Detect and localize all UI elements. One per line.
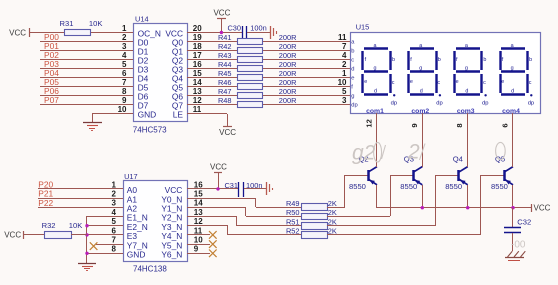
svg-text:com2: com2 [411,108,429,115]
svg-text:11: 11 [194,226,203,235]
svg-text:8550: 8550 [400,182,417,191]
svg-text:e: e [456,79,459,85]
svg-text:R43: R43 [218,51,232,60]
svg-text:2K: 2K [328,208,337,217]
svg-text:a: a [419,43,422,49]
svg-text:R52: R52 [286,227,300,236]
svg-text:g: g [351,94,354,100]
svg-text:3: 3 [112,199,117,208]
svg-text:8: 8 [455,123,464,127]
svg-text:R48: R48 [218,96,232,105]
svg-text:g: g [465,66,468,72]
svg-text:74HC573: 74HC573 [133,126,167,135]
svg-text:dp: dp [351,103,357,109]
svg-text:VCC: VCC [9,29,26,38]
svg-text:R42: R42 [218,42,232,51]
svg-text:13: 13 [193,87,202,96]
svg-text:10: 10 [194,236,203,245]
svg-text:e: e [364,79,367,85]
svg-text:C30: C30 [227,24,241,33]
svg-text:4: 4 [122,51,127,60]
svg-text:16: 16 [193,60,202,69]
svg-text:2: 2 [342,60,347,69]
svg-text:VCC: VCC [534,204,551,213]
svg-text:7: 7 [342,42,347,51]
svg-text:6: 6 [112,226,117,235]
svg-text:74HC138: 74HC138 [133,264,167,273]
svg-text:2: 2 [122,33,127,42]
svg-text:4: 4 [112,208,117,217]
svg-text:8: 8 [122,87,127,96]
svg-text:dp: dp [436,100,442,106]
svg-text:12: 12 [365,119,374,127]
svg-text:a: a [465,43,468,49]
svg-text:c: c [437,80,440,86]
svg-text:200R: 200R [279,33,297,42]
svg-text:dp: dp [391,100,397,106]
svg-text:17: 17 [193,51,202,60]
svg-text:3: 3 [122,42,127,51]
svg-text:9: 9 [122,96,127,105]
svg-text:20: 20 [193,24,202,33]
svg-text:d: d [511,89,514,95]
svg-text:com4: com4 [502,108,520,115]
svg-text:g2: g2 [352,142,376,165]
svg-text:R41: R41 [218,33,232,42]
svg-text:c: c [529,80,532,86]
svg-text:dp: dp [482,100,488,106]
svg-text:R46: R46 [218,78,232,87]
svg-text:VCC: VCC [4,231,21,240]
svg-text:1: 1 [342,69,347,78]
svg-text:d: d [351,67,354,73]
svg-text:8: 8 [112,245,117,254]
svg-text:18: 18 [193,42,202,51]
svg-text:com1: com1 [366,108,384,115]
svg-text:16: 16 [194,180,203,189]
svg-text:C31: C31 [224,181,238,190]
svg-text:12: 12 [193,96,202,105]
svg-text:7: 7 [112,236,117,245]
svg-text:3: 3 [342,96,347,105]
svg-text:b: b [351,49,354,55]
svg-text:-00: -00 [511,240,526,251]
svg-text:R31: R31 [60,19,74,28]
svg-text:b: b [529,57,532,63]
svg-text:4: 4 [342,51,347,60]
svg-text:e: e [501,79,504,85]
svg-text:g: g [419,66,422,72]
svg-text:5: 5 [342,87,347,96]
svg-text:13: 13 [194,208,203,217]
svg-text:7: 7 [122,78,127,87]
svg-text:2: 2 [407,141,420,164]
svg-text:1: 1 [112,180,117,189]
svg-text:GND: GND [138,110,157,120]
svg-text:11: 11 [338,33,347,42]
svg-text:e: e [351,76,354,82]
svg-text:200R: 200R [279,42,297,51]
svg-text:GND: GND [127,250,146,260]
svg-text:200R: 200R [279,51,297,60]
svg-text:b: b [483,57,486,63]
svg-text:6: 6 [122,69,127,78]
svg-text:9: 9 [194,245,199,254]
svg-text:2K: 2K [328,227,337,236]
svg-text:10: 10 [338,78,347,87]
svg-text:VCC: VCC [219,128,236,137]
svg-text:com3: com3 [457,108,475,115]
svg-text:2K: 2K [328,217,337,226]
svg-text:d: d [420,89,423,95]
svg-text:6: 6 [501,123,510,127]
svg-text:1: 1 [122,24,127,33]
svg-text:R51: R51 [286,217,300,226]
svg-text:5: 5 [122,60,127,69]
svg-text:5: 5 [112,217,117,226]
svg-text:200R: 200R [279,60,297,69]
svg-text:c: c [351,58,354,64]
svg-text:14: 14 [193,78,202,87]
svg-text:12: 12 [194,217,203,226]
svg-text:a: a [374,43,377,49]
svg-text:8550: 8550 [349,182,366,191]
svg-text:g: g [511,66,514,72]
svg-text:U17: U17 [124,172,138,181]
svg-text:LE: LE [173,110,184,120]
svg-text:c: c [392,80,395,86]
svg-text:VCC: VCC [213,9,230,18]
svg-text:200R: 200R [279,78,297,87]
svg-text:e: e [410,79,413,85]
svg-text:R49: R49 [286,199,300,208]
svg-text:100n: 100n [246,181,262,190]
svg-text:dp: dp [528,100,534,106]
svg-text:d: d [374,89,377,95]
svg-text:200R: 200R [279,69,297,78]
svg-text:10: 10 [118,105,127,114]
svg-text:b: b [438,57,441,63]
svg-text:P07: P07 [44,95,59,105]
svg-text:U14: U14 [135,15,149,24]
svg-text:15: 15 [194,190,203,199]
svg-text:C32: C32 [517,218,531,227]
svg-text:R32: R32 [42,221,56,230]
svg-text:R44: R44 [218,60,232,69]
svg-text:R45: R45 [218,69,232,78]
svg-text:19: 19 [193,33,202,42]
svg-text:200R: 200R [279,96,297,105]
svg-text:a: a [511,43,514,49]
svg-text:R47: R47 [218,87,232,96]
svg-text:VCC: VCC [210,162,227,171]
svg-text:2: 2 [112,190,117,199]
svg-text:Q4: Q4 [453,155,463,164]
svg-text:R50: R50 [286,208,300,217]
svg-text:15: 15 [193,69,202,78]
svg-text:8550: 8550 [445,182,462,191]
svg-text:10K: 10K [89,19,103,28]
svg-text:11: 11 [193,105,202,114]
svg-text:U15: U15 [356,22,370,31]
svg-text:9: 9 [410,123,419,127]
svg-text:c: c [483,80,486,86]
svg-text:d: d [465,89,468,95]
svg-text:2K: 2K [328,199,337,208]
svg-text:14: 14 [194,199,203,208]
svg-text:8550: 8550 [491,182,508,191]
svg-text:Y6_N: Y6_N [161,250,182,260]
svg-text:10K: 10K [69,221,83,230]
svg-text:P22: P22 [38,198,53,208]
svg-text:100n: 100n [250,24,266,33]
svg-text:g: g [374,66,377,72]
svg-text:200R: 200R [279,87,297,96]
svg-text:b: b [392,57,395,63]
